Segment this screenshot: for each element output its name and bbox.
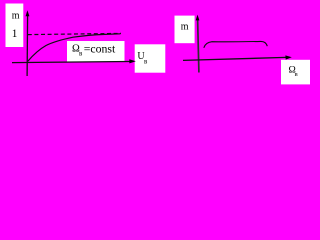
right graph: flat characteristic curve [204, 41, 267, 47]
right graph: box Omega_v [281, 60, 310, 85]
right graph: label box m [175, 16, 195, 44]
svg-text:в: в [295, 71, 298, 78]
right graph: horizontal axis [183, 57, 286, 60]
left graph: dashed asymptote at m=1 [28, 33, 121, 34]
svg-text:m: m [12, 11, 20, 22]
left graph: box U_v [135, 44, 166, 72]
right graph: vertical axis [198, 19, 199, 73]
left graph: label box m/1 [6, 4, 24, 48]
svg-text:1: 1 [12, 28, 18, 40]
left graph: box Omega_v=const [67, 41, 125, 62]
left graph: vertical axis arrowhead [26, 10, 30, 16]
left graph: horizontal axis arrowhead [129, 59, 136, 63]
left graph: vertical axis [26, 15, 29, 76]
left graph: horizontal axis [12, 62, 131, 63]
svg-text:=const: =const [84, 42, 116, 56]
left graph: saturation curve [28, 34, 121, 62]
right graph: vertical axis arrowhead [196, 15, 200, 21]
right graph: horizontal axis arrowhead [285, 55, 291, 59]
svg-text:m: m [181, 22, 189, 33]
